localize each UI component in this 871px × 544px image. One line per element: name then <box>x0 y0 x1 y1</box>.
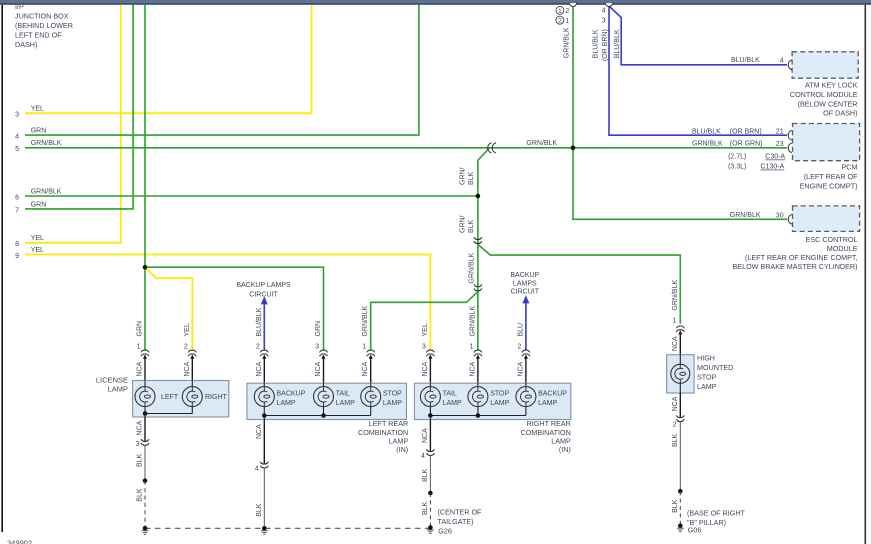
svg-text:CIRCUIT: CIRCUIT <box>511 289 540 296</box>
svg-text:(LEFT REAR OF: (LEFT REAR OF <box>804 172 858 181</box>
svg-text:G26: G26 <box>438 526 452 535</box>
ground G26 at left-rear <box>262 526 267 531</box>
svg-text:3: 3 <box>422 343 426 350</box>
svg-text:BACKUP: BACKUP <box>510 272 539 279</box>
lamp: LR stop <box>361 387 381 407</box>
svg-text:TAIL: TAIL <box>443 391 457 398</box>
svg-text:MODULE: MODULE <box>827 244 858 253</box>
svg-text:2: 2 <box>558 18 562 25</box>
svg-text:LICENSE: LICENSE <box>96 375 128 384</box>
svg-text:C30-A: C30-A <box>765 154 785 161</box>
svg-text:DASH): DASH) <box>15 40 37 49</box>
inline connector (mid-wire) at x=477.9,287.6 <box>474 285 482 287</box>
svg-text:I/P: I/P <box>15 2 24 11</box>
right rear lamp internal wiring <box>429 383 431 386</box>
svg-text:BLU/BLK: BLU/BLK <box>731 57 760 64</box>
backup lamps circuit arrow left <box>261 296 268 304</box>
inline connector (lamp feed) at x=477.9 <box>474 350 482 352</box>
inline connector (ground wire) at x=145 <box>141 439 149 441</box>
svg-text:NCA: NCA <box>315 361 322 376</box>
svg-text:MOUNTED: MOUNTED <box>697 363 733 372</box>
right frame border <box>864 5 866 544</box>
svg-text:BLK: BLK <box>468 219 475 233</box>
wire GRN branch to left-rear tail lamp <box>145 267 324 350</box>
inline connector (lamp feed) at x=525.9 <box>522 350 530 352</box>
top edge connector (BLU/BLK pins 4/3) <box>605 3 612 7</box>
svg-text:5: 5 <box>15 146 19 153</box>
svg-text:(CENTER OF: (CENTER OF <box>438 508 483 517</box>
module pin connector arcs <box>788 60 792 70</box>
node license BLK splice <box>143 478 148 483</box>
ground G26 at tailgate <box>428 525 433 530</box>
svg-text:4: 4 <box>15 134 19 141</box>
svg-text:GRN/BLK: GRN/BLK <box>672 280 679 311</box>
svg-text:GRN: GRN <box>31 201 47 208</box>
high mounted stop lamp box <box>667 355 694 393</box>
svg-text:OF DASH): OF DASH) <box>823 109 857 118</box>
svg-text:1: 1 <box>137 343 141 350</box>
svg-text:ENGINE COMPT): ENGINE COMPT) <box>800 181 858 190</box>
svg-text:BLK: BLK <box>422 468 429 482</box>
ATM key lock control module box <box>792 52 858 78</box>
left rear combination lamp box <box>247 383 407 419</box>
svg-text:2: 2 <box>184 343 188 350</box>
inline connector (ground wire) at x=430.4 <box>426 449 434 451</box>
svg-text:2: 2 <box>256 343 260 350</box>
left-rear BLK ground wire <box>263 420 265 465</box>
svg-text:HIGH: HIGH <box>697 354 715 363</box>
right rear combination lamp box <box>414 383 570 419</box>
svg-text:BLU/BLK: BLU/BLK <box>593 29 600 58</box>
svg-text:(LEFT REAR OF ENGINE COMPT,: (LEFT REAR OF ENGINE COMPT, <box>745 253 857 262</box>
left rear lamp internal wiring <box>263 383 265 386</box>
ground G26 at license <box>143 526 148 531</box>
svg-text:LAMP: LAMP <box>538 400 557 407</box>
PCM box <box>793 124 860 161</box>
svg-text:(BELOW CENTER: (BELOW CENTER <box>798 99 858 108</box>
svg-text:NCA: NCA <box>256 361 263 376</box>
svg-text:LAMP: LAMP <box>108 385 128 394</box>
svg-text:LEFT: LEFT <box>161 394 179 401</box>
svg-text:(BASE OF RIGHT: (BASE OF RIGHT <box>687 509 746 518</box>
svg-text:YEL: YEL <box>422 323 429 336</box>
node right-rear ground 1 <box>428 413 433 418</box>
svg-text:3: 3 <box>315 343 319 350</box>
wire YEL pin8: right then up to top <box>25 5 121 243</box>
wire GRN/BLK branch to high mounted stop lamp <box>478 244 680 323</box>
svg-text:BLK: BLK <box>137 453 144 467</box>
inline connector (( on GRN/BLK run <box>488 143 492 153</box>
svg-text:CIRCUIT: CIRCUIT <box>249 292 278 299</box>
footnote 1 pin 2 <box>556 6 564 14</box>
svg-text:(OR BRN): (OR BRN) <box>602 29 609 61</box>
inline connector (lamp feed) at x=430.4 <box>426 350 434 352</box>
inline connector (lamp feed) at x=264.3 <box>260 350 268 352</box>
svg-text:RIGHT: RIGHT <box>205 394 228 401</box>
svg-text:ESC CONTROL: ESC CONTROL <box>806 235 858 244</box>
wire GRN/BLK pin5: long horizontal to PCM pin 23 <box>25 147 787 149</box>
left frame border <box>1 5 3 532</box>
svg-text:23: 23 <box>776 141 784 148</box>
svg-text:NCA: NCA <box>422 361 429 376</box>
lamp: RR stop <box>468 387 488 407</box>
svg-text:LEFT END OF: LEFT END OF <box>15 30 62 39</box>
ESC control module box <box>793 206 860 232</box>
right-rear BLK ground wire <box>429 420 431 452</box>
node license ground <box>143 411 148 416</box>
svg-text:LAMP: LAMP <box>697 382 717 391</box>
svg-text:GRN/BLK: GRN/BLK <box>31 140 62 147</box>
svg-text:BELOW BRAKE MASTER CYLINDER): BELOW BRAKE MASTER CYLINDER) <box>732 262 857 271</box>
backup lamps circuit arrow right <box>522 295 529 303</box>
svg-text:BLU: BLU <box>517 323 524 337</box>
lamp: license LEFT <box>135 387 155 407</box>
svg-text:21: 21 <box>776 129 784 136</box>
wire GRN/BLK branch to left-rear stop lamp <box>371 292 478 350</box>
license lamp internal wiring <box>144 381 146 387</box>
high mounted lamp internal wiring <box>679 355 681 365</box>
svg-text:(BEHIND LOWER: (BEHIND LOWER <box>15 21 73 30</box>
svg-text:BLK: BLK <box>468 171 475 185</box>
svg-text:3: 3 <box>15 112 19 119</box>
svg-text:GRN: GRN <box>31 128 47 135</box>
svg-text:TAIL: TAIL <box>336 391 350 398</box>
svg-text:3: 3 <box>602 17 606 24</box>
high mounted BLK ground wire <box>679 393 681 418</box>
svg-text:(OR BRN): (OR BRN) <box>730 128 762 135</box>
svg-text:LAMPS: LAMPS <box>513 280 537 287</box>
svg-text:3: 3 <box>136 441 140 448</box>
svg-text:BLK: BLK <box>422 501 429 515</box>
svg-text:BACKUP: BACKUP <box>538 391 567 398</box>
wire GRN pin7: right then up to top <box>25 5 133 209</box>
lamp: license RIGHT <box>182 387 202 407</box>
svg-text:1: 1 <box>565 18 569 25</box>
top header bar <box>0 0 871 3</box>
ground symbol <box>427 529 434 531</box>
node right-rear ground 2 <box>476 413 481 418</box>
inline connector (lamp feed) at x=323.5 <box>320 350 328 352</box>
license lamp box <box>133 381 229 418</box>
svg-text:(OR GRN): (OR GRN) <box>730 141 763 148</box>
svg-text:1: 1 <box>469 343 473 350</box>
node: pin6 GRN/BLK junction <box>476 194 481 199</box>
svg-text:LAMP: LAMP <box>490 400 509 407</box>
svg-text:GRN: GRN <box>137 321 144 337</box>
lamp: LR backup <box>254 387 274 407</box>
node right-rear BLK splice <box>428 491 433 496</box>
lamp: RR backup <box>516 387 536 407</box>
wire GRN/BLK node riser to horizontal run <box>478 148 489 196</box>
license BLK ground wire <box>144 417 146 442</box>
ground symbol <box>142 530 149 532</box>
svg-text:STOP: STOP <box>490 391 509 398</box>
svg-text:LAMP: LAMP <box>443 400 462 407</box>
svg-text:NCA: NCA <box>517 361 524 376</box>
svg-text:GRN/BLK: GRN/BLK <box>469 252 476 283</box>
svg-text:(IN): (IN) <box>396 445 408 454</box>
svg-text:NCA: NCA <box>137 420 144 435</box>
svg-text:BLU/BLK: BLU/BLK <box>614 29 621 58</box>
svg-text:GRN: GRN <box>315 321 322 337</box>
svg-text:8: 8 <box>15 241 19 248</box>
node left-rear ground 1 <box>262 413 267 418</box>
svg-text:LAMP: LAMP <box>277 400 296 407</box>
wire GRN/BLK vertical node to right-rear stop lamp <box>477 196 479 350</box>
svg-text:BLK: BLK <box>256 503 263 517</box>
svg-text:(3.3L): (3.3L) <box>728 164 746 171</box>
node: GRN/BLK junction at PCM/ESC feed <box>571 146 576 151</box>
svg-text:YEL: YEL <box>31 235 44 242</box>
svg-text:BLK: BLK <box>672 433 679 447</box>
inline connector (lamp feed) at x=680.3 <box>676 326 684 328</box>
svg-text:LAMP: LAMP <box>336 400 355 407</box>
svg-text:YEL: YEL <box>31 106 44 113</box>
svg-text:1: 1 <box>673 318 677 325</box>
svg-text:GRN/BLK: GRN/BLK <box>362 305 369 336</box>
svg-text:C130-A: C130-A <box>761 164 785 171</box>
wire GRN pin4: right then up to top <box>25 5 419 135</box>
svg-text:BLU/BLK: BLU/BLK <box>256 307 263 336</box>
inline connector (mid-wire) at x=477.9,240.3 <box>474 237 482 239</box>
inline connector (ground wire) at x=264.3 <box>260 462 268 464</box>
svg-text:PCM: PCM <box>842 163 858 172</box>
svg-text:STOP: STOP <box>383 391 402 398</box>
svg-text:GRN/BLK: GRN/BLK <box>564 27 571 58</box>
svg-text:TAILGATE): TAILGATE) <box>438 517 474 526</box>
lamp: high mounted stop <box>671 364 690 383</box>
svg-text:YEL: YEL <box>184 323 191 336</box>
svg-text:7: 7 <box>15 207 19 214</box>
svg-text:LAMP: LAMP <box>383 400 402 407</box>
footnote 2 pin 1 <box>556 16 564 24</box>
svg-text:GRN/: GRN/ <box>460 215 467 233</box>
ground bus G26 dashed <box>145 527 430 529</box>
ground symbol <box>677 527 684 529</box>
svg-text:4: 4 <box>602 7 606 14</box>
svg-text:BLU/BLK: BLU/BLK <box>692 128 721 135</box>
svg-text:NCA: NCA <box>469 361 476 376</box>
svg-text:4: 4 <box>255 466 259 473</box>
svg-text:GRN/BLK: GRN/BLK <box>469 305 476 336</box>
svg-text:30: 30 <box>776 212 784 219</box>
lamp: LR tail <box>314 387 334 407</box>
svg-text:NCA: NCA <box>184 361 191 376</box>
svg-text:GRN/BLK: GRN/BLK <box>526 140 557 147</box>
svg-text:STOP: STOP <box>697 373 717 382</box>
wire BLU/BLK (OR BRN) from top to PCM pin 21 <box>609 6 787 135</box>
svg-text:2: 2 <box>517 343 521 350</box>
svg-text:GRN/BLK: GRN/BLK <box>31 188 62 195</box>
svg-text:ATM KEY LOCK: ATM KEY LOCK <box>805 81 858 90</box>
ground symbol <box>261 530 268 532</box>
svg-text:1: 1 <box>362 343 366 350</box>
inline connector (lamp feed) at x=145 <box>141 350 149 352</box>
svg-text:YEL: YEL <box>31 247 44 254</box>
svg-text:BLK: BLK <box>672 499 679 513</box>
lamp: RR tail <box>420 387 440 407</box>
svg-text:BACKUP: BACKUP <box>277 391 306 398</box>
node high mounted BLK splice <box>678 489 683 494</box>
wire GRN/BLK pin6: horizontal to node <box>25 195 478 197</box>
svg-text:9: 9 <box>15 253 19 260</box>
wire BLU/BLK from top to ATM key lock module pin 4 <box>609 6 787 65</box>
node left-rear ground 2 <box>321 413 326 418</box>
wire GRN/BLK from top to ESC control module pin 30 <box>573 6 787 219</box>
svg-text:NCA: NCA <box>362 361 369 376</box>
ground G06 at B pillar <box>678 524 683 529</box>
svg-text:(2.7L): (2.7L) <box>728 154 746 161</box>
wire GRN vertical from top to license left lamp <box>144 5 146 350</box>
wire YEL pin3: right then up to top <box>25 5 312 114</box>
svg-text:JUNCTION BOX: JUNCTION BOX <box>15 11 69 20</box>
svg-text:4: 4 <box>421 453 425 460</box>
inline connector (lamp feed) at x=192.3 <box>188 350 196 352</box>
svg-text:BLK: BLK <box>137 488 144 502</box>
svg-text:4: 4 <box>780 58 784 65</box>
svg-text:CONTROL MODULE: CONTROL MODULE <box>790 90 858 99</box>
svg-text:2: 2 <box>565 8 569 15</box>
svg-text:2: 2 <box>673 422 677 429</box>
svg-text:GRN/BLK: GRN/BLK <box>730 212 761 219</box>
svg-text:GRN/: GRN/ <box>460 167 467 185</box>
svg-text:NCA: NCA <box>256 424 263 439</box>
svg-text:(IN): (IN) <box>559 445 571 454</box>
node: GRN junction feeding license/tail lamps <box>143 265 148 270</box>
svg-text:GRN/BLK: GRN/BLK <box>692 141 723 148</box>
wire YEL to license right lamp <box>146 269 192 350</box>
svg-text:G06: G06 <box>688 525 702 534</box>
svg-text:1: 1 <box>558 8 562 15</box>
wire YEL pin9: right then down to right-rear tail lamp <box>25 255 430 350</box>
svg-text:NCA: NCA <box>137 361 144 376</box>
svg-text:6: 6 <box>15 194 19 201</box>
inline connector (ground wire) at x=680.3 <box>676 415 684 417</box>
svg-text:NCA: NCA <box>672 396 679 411</box>
svg-text:349902: 349902 <box>7 539 32 544</box>
svg-text:NCA: NCA <box>672 336 679 351</box>
svg-text:BACKUP LAMPS: BACKUP LAMPS <box>236 282 291 289</box>
svg-text:NCA: NCA <box>422 428 429 443</box>
top edge connector (GRN/BLK circuit 1/2) <box>569 3 576 7</box>
black feed stubs into lamp boxes <box>144 356 146 380</box>
inline connector (lamp feed) at x=370.7 <box>367 350 375 352</box>
